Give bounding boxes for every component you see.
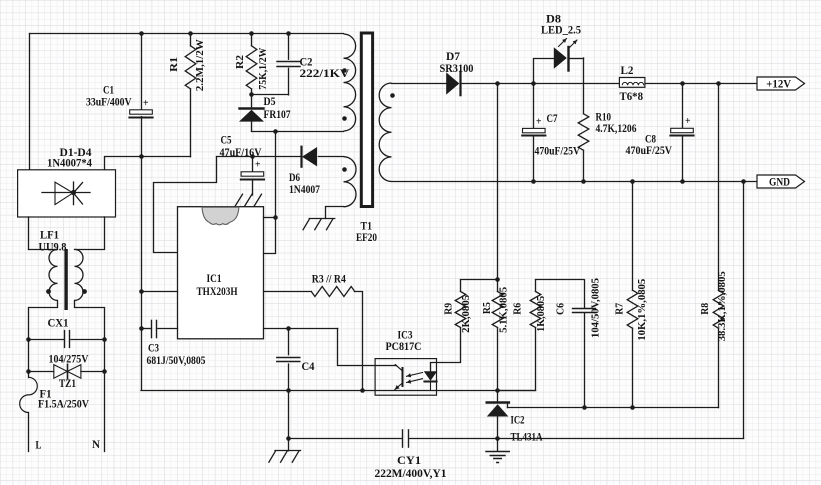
wire to earth bbox=[288, 439, 290, 451]
svg-text:UU9.8: UU9.8 bbox=[39, 240, 67, 254]
label R9 2K 0805 bbox=[443, 295, 472, 333]
inductor L2 bbox=[619, 78, 645, 88]
wire TL431 to gnd bbox=[497, 439, 499, 452]
svg-text:R3 // R4: R3 // R4 bbox=[312, 272, 346, 286]
junctions CX1 bbox=[26, 337, 107, 342]
resistor R7 bbox=[627, 290, 638, 328]
svg-text:47uF/16V: 47uF/16V bbox=[220, 145, 262, 159]
LED D8 bbox=[554, 47, 569, 71]
choke LF1 right winding bbox=[75, 249, 84, 300]
label R6 1K 0805 bbox=[512, 296, 548, 332]
label T1 EF20 bbox=[356, 219, 377, 245]
svg-text:L: L bbox=[36, 438, 42, 452]
svg-text:+12V: +12V bbox=[766, 77, 791, 91]
wire right column bbox=[75, 301, 105, 452]
hatch C5 return on IC1 bbox=[235, 194, 262, 206]
choke LF1 core bbox=[64, 249, 67, 310]
junction C5 top bbox=[250, 154, 255, 159]
svg-text:IC1: IC1 bbox=[207, 271, 222, 285]
junctions ref line bbox=[582, 405, 635, 410]
wire VCC staircase to IC1 bbox=[154, 157, 217, 253]
label IC2 TL431A bbox=[511, 413, 543, 444]
svg-text:R8: R8 bbox=[699, 302, 711, 315]
svg-text:+: + bbox=[143, 97, 149, 109]
resistor R6 bbox=[530, 292, 541, 328]
wire IC1 gnd pin bbox=[141, 291, 178, 293]
junction R2/C2/D5 bbox=[249, 92, 254, 97]
wire R6/C6 bracket bbox=[536, 279, 585, 281]
varistor TZ1 bbox=[54, 364, 81, 378]
svg-text:LED_2.5: LED_2.5 bbox=[541, 23, 581, 37]
svg-text:38.3K,1%,0805: 38.3K,1%,0805 bbox=[716, 271, 728, 341]
svg-text:+: + bbox=[685, 115, 691, 127]
phase dots LF1 bbox=[46, 289, 87, 294]
capacitor C5 bbox=[241, 172, 264, 180]
wire TL431 cathode lead bbox=[497, 390, 499, 401]
wire GND rail bbox=[392, 181, 758, 183]
wire C8 leads bbox=[682, 83, 684, 181]
wire drain to primary bbox=[252, 131, 344, 133]
svg-text:1K,0805: 1K,0805 bbox=[535, 296, 547, 332]
svg-text:104/275V: 104/275V bbox=[49, 352, 89, 366]
junctions on bus- bbox=[139, 289, 144, 331]
svg-text:IC2: IC2 bbox=[511, 413, 525, 427]
junction TL431 anode bbox=[495, 436, 500, 441]
label L N terminals bbox=[36, 437, 101, 452]
svg-text:33uF/400V: 33uF/400V bbox=[86, 95, 132, 109]
phase dot secondary bbox=[390, 93, 395, 98]
svg-text:R2: R2 bbox=[234, 55, 246, 69]
label C4 bbox=[302, 359, 315, 373]
resistor R10 bbox=[578, 114, 589, 151]
label C5 47uF/16V bbox=[220, 133, 262, 171]
svg-text:THX203H: THX203H bbox=[197, 284, 239, 298]
svg-text:TL431A: TL431A bbox=[511, 430, 543, 444]
svg-text:R6: R6 bbox=[512, 302, 524, 315]
svg-text:681J/50V,0805: 681J/50V,0805 bbox=[147, 353, 206, 367]
label IC3 PC817C bbox=[386, 328, 422, 354]
wire R3R4 leads bbox=[264, 292, 363, 391]
resistor R2 bbox=[246, 46, 257, 89]
svg-text:+: + bbox=[255, 159, 261, 171]
wire C3 leads bbox=[141, 328, 178, 330]
diode D7 SR3100 bbox=[446, 72, 460, 95]
label IC1 THX203H bbox=[197, 271, 239, 298]
label CX1 104/275V bbox=[48, 316, 89, 366]
phase dots primary bbox=[342, 68, 347, 121]
junction R9/R5 top bbox=[495, 277, 500, 282]
label C3 681J/50V 0805 bbox=[147, 341, 206, 368]
wire Y-cap bottom bbox=[288, 438, 743, 440]
transformer T1 primary winding bbox=[344, 34, 356, 131]
label LF1 UU9.8 bbox=[39, 228, 67, 254]
wire secondary gnd return bbox=[743, 181, 745, 438]
junction drain wire bbox=[273, 129, 278, 134]
svg-text:C4: C4 bbox=[302, 359, 315, 373]
wire VCC / D6 bbox=[217, 156, 344, 158]
label D6 1N4007 bbox=[289, 170, 320, 196]
capacitor C1 bbox=[129, 110, 152, 118]
wire C4 leads bbox=[288, 328, 290, 390]
svg-text:2K,0805: 2K,0805 bbox=[460, 295, 472, 333]
transformer T1 secondary winding bbox=[379, 83, 391, 182]
capacitor C2 bbox=[277, 62, 300, 67]
svg-text:TZ1: TZ1 bbox=[59, 376, 76, 390]
resistor R8 bbox=[713, 290, 724, 328]
wire R8 leads bbox=[718, 83, 720, 408]
svg-text:+: + bbox=[536, 115, 542, 127]
junction bottom left bbox=[286, 436, 291, 441]
label CY1 222M/400V Y1 bbox=[375, 453, 447, 480]
wire C4 node down bbox=[288, 390, 290, 438]
svg-text:N: N bbox=[92, 437, 100, 451]
svg-text:5.1K,0805: 5.1K,0805 bbox=[498, 287, 510, 333]
wire LED branch bbox=[534, 59, 584, 84]
phase dot aux bbox=[342, 167, 347, 172]
junctions +12V rail bbox=[495, 81, 721, 86]
wire IC1 drain pins bbox=[264, 132, 276, 254]
diode D6 bbox=[302, 147, 317, 167]
svg-text:EF20: EF20 bbox=[356, 230, 377, 244]
wire TL431 ref line bbox=[508, 403, 719, 408]
choke LF1 left winding bbox=[49, 249, 57, 300]
resistor R1 bbox=[185, 46, 196, 89]
label R1 2.2M 1/2W bbox=[168, 39, 206, 91]
svg-text:SR3100: SR3100 bbox=[440, 61, 474, 75]
label C8 470uF/25V bbox=[626, 115, 691, 157]
bridge rectifier D1-D4 bbox=[18, 170, 116, 217]
svg-text:470uF/25V: 470uF/25V bbox=[535, 144, 581, 158]
label F1 F1.5A/250V bbox=[38, 387, 89, 411]
LED D8 emission arrows bbox=[559, 39, 578, 49]
label R2 75K 1/2W bbox=[234, 47, 269, 89]
wire aux bottom bbox=[326, 207, 344, 219]
svg-text:C6: C6 bbox=[555, 302, 567, 315]
svg-text:FR107: FR107 bbox=[264, 107, 291, 121]
capacitor C7 bbox=[522, 128, 545, 135]
svg-text:GND: GND bbox=[769, 175, 790, 189]
wire C6 leads bbox=[584, 280, 586, 408]
wire L lead bbox=[28, 413, 30, 452]
terminal GND bbox=[757, 175, 805, 189]
junctions on common wire bbox=[286, 388, 365, 393]
wire R9/R5 bracket bbox=[461, 279, 498, 281]
capacitor C4 bbox=[277, 358, 300, 362]
wire C2 leads bbox=[252, 34, 289, 95]
resistor R9 bbox=[455, 292, 466, 328]
ground aux winding bbox=[303, 219, 335, 230]
wire IC1 FB to optocoupler bbox=[264, 329, 397, 366]
ground earth bottom left bbox=[269, 451, 301, 463]
label D5 FR107 bbox=[264, 94, 291, 121]
diode D5 bbox=[240, 109, 264, 122]
wire TZ1 leads bbox=[29, 371, 105, 373]
svg-text:222M/400V,Y1: 222M/400V,Y1 bbox=[375, 466, 447, 480]
svg-text:F1.5A/250V: F1.5A/250V bbox=[38, 397, 89, 411]
label C6 104/50V 0805 bbox=[555, 278, 602, 338]
wire +HV top rail bbox=[30, 33, 344, 35]
wire +12V rail bbox=[392, 83, 758, 85]
svg-text:CX1: CX1 bbox=[48, 316, 69, 330]
svg-text:4.7K,1206: 4.7K,1206 bbox=[596, 121, 637, 135]
svg-text:R7: R7 bbox=[613, 302, 625, 315]
wire R5 leads bbox=[497, 280, 499, 390]
wire R2 leads bbox=[251, 34, 253, 95]
wire C5 leads bbox=[252, 157, 254, 195]
wire +12V sense riser bbox=[497, 83, 499, 280]
wire bus- left vertical bbox=[141, 157, 143, 391]
svg-text:1N4007: 1N4007 bbox=[289, 182, 320, 196]
wire C1 leads bbox=[141, 34, 143, 157]
op-amp U1 IC1 THX203H body bbox=[178, 207, 264, 339]
svg-text:T6*8: T6*8 bbox=[620, 89, 644, 103]
wire bus- to R1 bbox=[141, 156, 190, 158]
junction R2 top bbox=[249, 31, 254, 36]
wire primary common / opto emitter bbox=[141, 390, 536, 392]
label R3 // R4 bbox=[312, 272, 346, 286]
label L2 T6*8 bbox=[620, 63, 644, 103]
svg-text:470uF/25V: 470uF/25V bbox=[626, 143, 673, 157]
label R5 5.1K 0805 bbox=[481, 287, 509, 333]
wire R7 leads bbox=[632, 181, 634, 407]
junction drain pins bbox=[273, 215, 278, 220]
label C1 33uF/400V bbox=[86, 83, 149, 109]
svg-text:75K,1/2W: 75K,1/2W bbox=[257, 47, 269, 89]
optocoupler IC3 PC817C bbox=[375, 359, 437, 396]
junction bridge+/C1 bbox=[139, 154, 144, 159]
ground TL431 bbox=[486, 452, 509, 463]
wire D5 leads bbox=[251, 95, 253, 131]
resistor R3 // R4 bbox=[311, 287, 355, 297]
svg-text:104/50V,0805: 104/50V,0805 bbox=[590, 278, 602, 338]
label D7 SR3100 bbox=[440, 49, 474, 75]
junction C1 top bbox=[139, 31, 144, 36]
label C7 470uF/25V bbox=[535, 111, 581, 158]
fuse F1 bbox=[20, 377, 38, 412]
svg-text:1N4007*4: 1N4007*4 bbox=[47, 156, 92, 170]
shunt regulator IC2 TL431A bbox=[487, 403, 509, 439]
terminal +12V bbox=[757, 77, 805, 91]
wire bridge + output bbox=[105, 157, 142, 170]
label R7 10K 1% 0805 bbox=[613, 279, 648, 341]
wire R1 leads bbox=[190, 34, 192, 157]
resistor R5 bbox=[492, 292, 503, 328]
transformer T1 core bbox=[361, 33, 372, 207]
svg-text:2.2M,1/2W: 2.2M,1/2W bbox=[194, 39, 206, 91]
wire CX1 leads bbox=[29, 339, 105, 341]
wire R10 leads bbox=[583, 58, 585, 181]
capacitor CY1 bbox=[403, 430, 409, 447]
svg-text:R5: R5 bbox=[481, 302, 493, 314]
wire left column upper bbox=[29, 301, 58, 378]
label R8 38.3K 1% 0805 bbox=[699, 271, 728, 341]
junction R1 top bbox=[188, 31, 193, 36]
wire choke top left bbox=[29, 217, 58, 250]
label TZ1 bbox=[59, 376, 76, 390]
svg-text:R1: R1 bbox=[168, 57, 180, 72]
svg-text:C7: C7 bbox=[547, 111, 558, 125]
junction TL431 cathode bbox=[495, 388, 500, 393]
svg-text:CY1: CY1 bbox=[397, 453, 421, 467]
wire R9 to LED anode bbox=[431, 280, 461, 372]
svg-text:PC817C: PC817C bbox=[386, 339, 422, 353]
label D8 LED_2.5 bbox=[541, 12, 581, 37]
wire left drop to bridge bbox=[29, 34, 31, 170]
capacitor C6 bbox=[573, 309, 596, 313]
wire R6 leads bbox=[498, 280, 536, 391]
junction C4 top bbox=[286, 326, 291, 331]
capacitor CX1 bbox=[65, 331, 70, 348]
junctions GND rail bbox=[531, 179, 746, 184]
svg-text:10K,1%,0805: 10K,1%,0805 bbox=[636, 279, 648, 341]
transformer T1 aux winding bbox=[344, 157, 357, 207]
junctions TZ1 bbox=[26, 369, 107, 374]
svg-text:L2: L2 bbox=[621, 63, 634, 77]
svg-text:R9: R9 bbox=[443, 302, 455, 315]
wire C7 leads bbox=[533, 83, 535, 181]
capacitor C3 bbox=[152, 320, 157, 337]
wire choke top right bbox=[75, 217, 105, 250]
label D1-D4 1N4007*4 bbox=[47, 145, 92, 170]
label C2 222/1KV bbox=[300, 55, 350, 81]
capacitor C8 bbox=[670, 128, 693, 135]
label R10 4.7K 1206 bbox=[596, 110, 637, 136]
svg-text:222/1KV: 222/1KV bbox=[300, 66, 350, 80]
junction C2 top bbox=[286, 31, 291, 36]
